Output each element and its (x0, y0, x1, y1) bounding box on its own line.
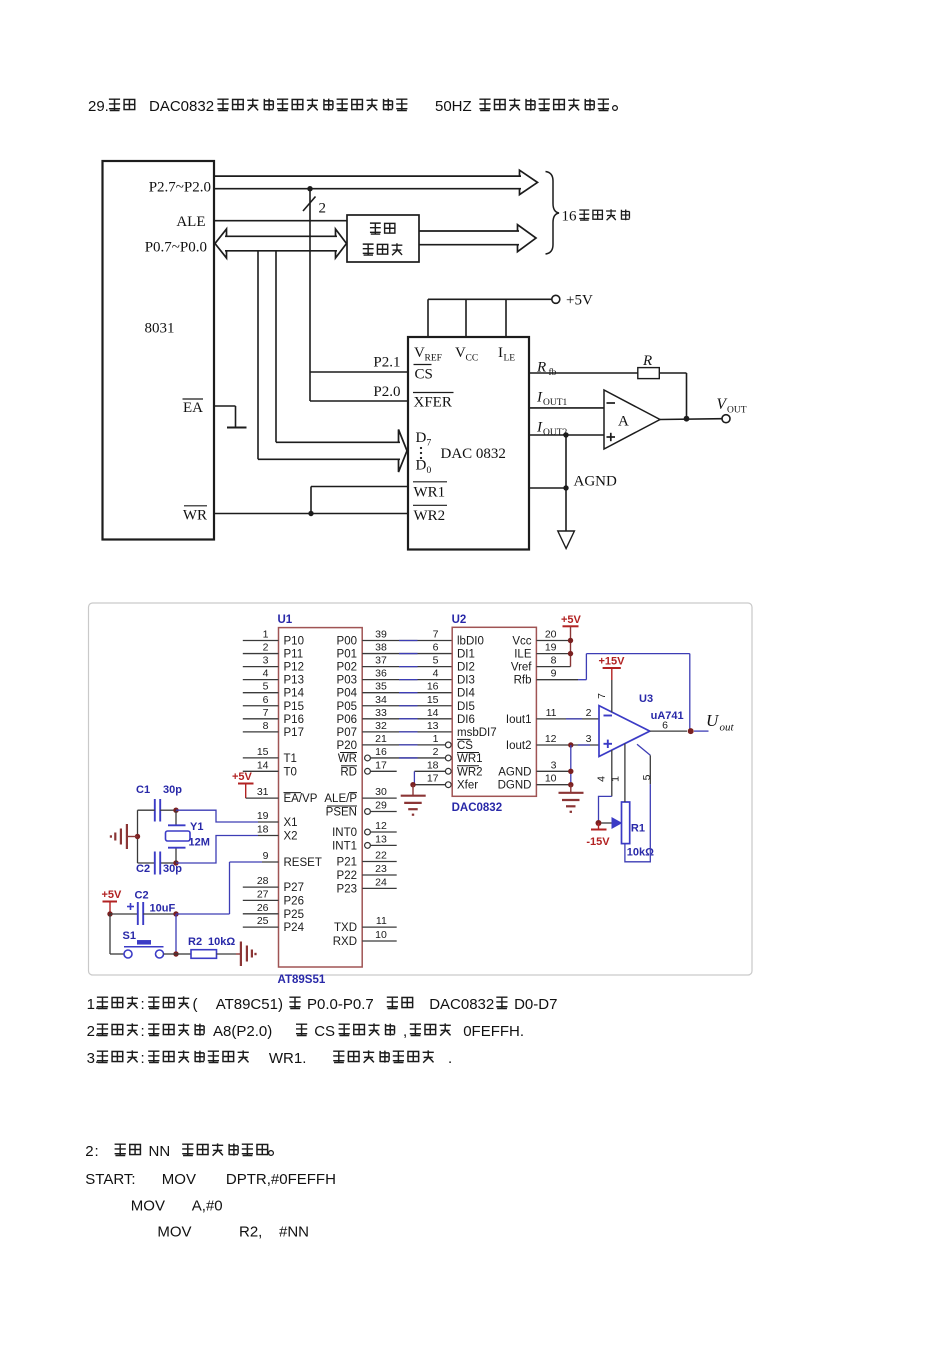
svg-text:WR1.: WR1. (269, 1050, 307, 1067)
svg-text:ALE: ALE (176, 214, 205, 230)
svg-text:RXD: RXD (333, 936, 357, 948)
svg-text:10kΩ: 10kΩ (208, 936, 235, 948)
svg-text:27: 27 (257, 888, 269, 900)
svg-text:P2.0: P2.0 (373, 384, 400, 400)
svg-text:35: 35 (375, 681, 387, 693)
svg-text:11: 11 (376, 915, 387, 927)
svg-text:V: V (414, 345, 425, 361)
svg-text:P13: P13 (284, 675, 304, 687)
svg-text:17: 17 (427, 773, 439, 785)
svg-text:P0.0-P0.7: P0.0-P0.7 (307, 996, 374, 1013)
svg-text:TXD: TXD (334, 922, 357, 934)
svg-text:24: 24 (375, 876, 387, 888)
svg-text:Y1: Y1 (190, 821, 203, 833)
svg-text:2: 2 (263, 642, 269, 654)
svg-text:D0-D7: D0-D7 (514, 996, 557, 1013)
svg-text:13: 13 (427, 720, 439, 732)
svg-text:U: U (706, 711, 720, 730)
svg-text:WR: WR (338, 753, 357, 765)
svg-text:7: 7 (596, 693, 608, 699)
svg-text:U3: U3 (639, 693, 653, 705)
svg-text:25: 25 (257, 915, 269, 927)
svg-text:+5V: +5V (561, 614, 582, 626)
svg-text:DI4: DI4 (457, 688, 476, 700)
svg-text:R2,: R2, (239, 1224, 262, 1241)
svg-text:WR: WR (183, 508, 207, 524)
svg-text:6: 6 (263, 694, 269, 706)
svg-text:out: out (720, 722, 735, 734)
svg-text:DI2: DI2 (457, 662, 475, 674)
svg-text:Iout1: Iout1 (506, 714, 532, 726)
svg-text:3.: 3. (87, 1050, 100, 1067)
svg-text:P03: P03 (337, 675, 357, 687)
svg-text:29.: 29. (88, 98, 109, 115)
svg-text:8: 8 (263, 720, 269, 732)
svg-text:P25: P25 (284, 909, 304, 921)
svg-text:36: 36 (375, 668, 387, 680)
svg-text:INT0: INT0 (332, 827, 357, 839)
svg-text:#NN: #NN (279, 1224, 309, 1241)
svg-text:15: 15 (427, 694, 439, 706)
svg-text:MOV: MOV (162, 1171, 196, 1188)
svg-text:DAC0832: DAC0832 (429, 996, 494, 1013)
svg-text:6: 6 (662, 720, 668, 732)
svg-text:20: 20 (545, 629, 557, 641)
svg-text:14: 14 (257, 759, 269, 771)
svg-text:1: 1 (610, 776, 622, 782)
svg-text:U2: U2 (452, 614, 467, 626)
svg-text:C2: C2 (135, 890, 149, 902)
svg-text:2: 2 (319, 201, 327, 217)
svg-text:T0: T0 (284, 766, 297, 778)
svg-text:CS: CS (415, 367, 433, 383)
svg-text:5: 5 (263, 681, 269, 693)
svg-text:2: 2 (85, 1143, 93, 1160)
svg-text:Rfb: Rfb (514, 675, 532, 687)
svg-text:A: A (618, 414, 629, 430)
svg-text:ILE: ILE (514, 649, 532, 661)
svg-text:AGND: AGND (498, 766, 531, 778)
svg-text:I: I (498, 345, 503, 361)
svg-text:P11: P11 (284, 649, 304, 661)
svg-text:16: 16 (562, 209, 578, 225)
svg-text:P14: P14 (284, 688, 305, 700)
svg-text:C2: C2 (136, 863, 150, 875)
svg-text:DAC0832: DAC0832 (452, 802, 503, 814)
svg-text:CS: CS (457, 740, 473, 752)
svg-text:V: V (455, 345, 466, 361)
svg-text:EA/VP: EA/VP (284, 793, 318, 805)
svg-text:50HZ: 50HZ (435, 98, 472, 115)
svg-text:15: 15 (257, 746, 269, 758)
svg-text:0: 0 (427, 466, 432, 476)
svg-text:28: 28 (257, 875, 269, 887)
svg-text:D: D (416, 430, 427, 446)
svg-text:29: 29 (375, 800, 387, 812)
svg-text:16: 16 (427, 681, 439, 693)
svg-text:7: 7 (427, 439, 432, 449)
svg-text:.: . (448, 1050, 452, 1067)
svg-text:ALE/P: ALE/P (324, 793, 357, 805)
svg-text:P10: P10 (284, 636, 304, 648)
svg-text:lbDI0: lbDI0 (457, 636, 484, 648)
svg-text:P0.7~P0.0: P0.7~P0.0 (145, 240, 207, 256)
svg-text:26: 26 (257, 902, 269, 914)
svg-text:DI3: DI3 (457, 675, 475, 687)
svg-text:P15: P15 (284, 701, 304, 713)
svg-text:P24: P24 (284, 922, 305, 934)
svg-text:P05: P05 (337, 701, 357, 713)
svg-text:I: I (536, 420, 543, 436)
svg-text:+5V: +5V (232, 771, 253, 783)
svg-text:Xfer: Xfer (457, 780, 478, 792)
svg-text:0FEFFH.: 0FEFFH. (463, 1023, 524, 1040)
svg-text:START:: START: (85, 1171, 135, 1188)
svg-text:19: 19 (545, 642, 557, 654)
svg-text:19: 19 (257, 810, 269, 822)
svg-text:21: 21 (375, 733, 387, 745)
svg-text:DI1: DI1 (457, 649, 475, 661)
svg-text:LE: LE (504, 354, 516, 364)
svg-text:38: 38 (375, 642, 387, 654)
svg-text:7: 7 (433, 629, 439, 641)
svg-text:P27: P27 (284, 882, 304, 894)
svg-text:P26: P26 (284, 895, 304, 907)
svg-text:AT89S51: AT89S51 (278, 974, 326, 986)
svg-text:10: 10 (545, 773, 557, 785)
svg-text:1: 1 (433, 733, 439, 745)
svg-text:7: 7 (263, 707, 269, 719)
svg-text:8: 8 (551, 655, 557, 667)
svg-text:A8(P2.0): A8(P2.0) (213, 1023, 272, 1040)
svg-text:14: 14 (427, 707, 439, 719)
svg-text:WR2: WR2 (457, 766, 483, 778)
svg-text:12: 12 (375, 820, 387, 832)
svg-text:P16: P16 (284, 714, 304, 726)
svg-text:RESET: RESET (284, 857, 322, 869)
svg-text:WR1: WR1 (457, 753, 483, 765)
svg-text:30p: 30p (163, 863, 182, 875)
svg-text:12M: 12M (189, 837, 210, 849)
svg-text:I: I (536, 390, 543, 406)
svg-text:A,#0: A,#0 (192, 1198, 223, 1215)
svg-text:DAC 0832: DAC 0832 (441, 446, 506, 462)
svg-text:msbDI7: msbDI7 (457, 727, 497, 739)
svg-text::: : (141, 1050, 145, 1067)
svg-text:16: 16 (375, 746, 387, 758)
svg-text:NN: NN (149, 1143, 171, 1160)
svg-text:Vref: Vref (511, 662, 532, 674)
svg-text:2: 2 (586, 707, 592, 719)
svg-text:R: R (642, 353, 652, 369)
svg-text:INT1: INT1 (332, 840, 357, 852)
svg-text:X2: X2 (284, 831, 298, 843)
svg-text:-15V: -15V (586, 836, 610, 848)
svg-text:+15V: +15V (599, 656, 626, 668)
svg-text:4: 4 (596, 776, 608, 782)
svg-text:V: V (717, 396, 728, 413)
svg-text:WR1: WR1 (414, 485, 446, 501)
svg-text:D: D (416, 458, 427, 474)
svg-text:32: 32 (375, 720, 387, 732)
svg-text:22: 22 (375, 850, 387, 862)
svg-text:8031: 8031 (145, 321, 175, 337)
svg-text:Vcc: Vcc (512, 636, 531, 648)
svg-text:R2: R2 (188, 936, 202, 948)
svg-text:10uF: 10uF (150, 903, 176, 915)
svg-text:39: 39 (375, 629, 387, 641)
svg-text:P22: P22 (337, 870, 357, 882)
svg-text:30p: 30p (163, 784, 182, 796)
svg-text:5: 5 (641, 774, 653, 780)
svg-text:Iout2: Iout2 (506, 740, 532, 752)
svg-text:OUT: OUT (727, 406, 747, 416)
svg-text:P06: P06 (337, 714, 357, 726)
svg-text:9: 9 (263, 850, 269, 862)
svg-text:MOV: MOV (157, 1224, 191, 1241)
svg-text:P23: P23 (337, 883, 357, 895)
svg-text:XFER: XFER (414, 395, 452, 411)
svg-text:P21: P21 (337, 857, 357, 869)
svg-text:1: 1 (263, 629, 269, 641)
svg-text:X1: X1 (284, 817, 298, 829)
svg-text:31: 31 (257, 786, 269, 798)
svg-text:P00: P00 (337, 636, 357, 648)
svg-text:R1: R1 (631, 823, 645, 835)
svg-text::: : (141, 1023, 145, 1040)
svg-text:3: 3 (586, 733, 592, 745)
svg-text:CS: CS (314, 1023, 335, 1040)
svg-text:P02: P02 (337, 662, 357, 674)
svg-text:DGND: DGND (498, 780, 532, 792)
svg-text:T1: T1 (284, 753, 297, 765)
svg-text:23: 23 (375, 863, 387, 875)
svg-text:P04: P04 (337, 688, 358, 700)
svg-text:P2.7~P2.0: P2.7~P2.0 (149, 180, 211, 196)
svg-text:AT89C51): AT89C51) (216, 996, 283, 1013)
svg-text::: : (95, 1143, 99, 1160)
svg-text:DI6: DI6 (457, 714, 475, 726)
svg-text:1.: 1. (87, 996, 100, 1013)
svg-text:P12: P12 (284, 662, 304, 674)
svg-text:3: 3 (551, 759, 557, 771)
svg-text:DPTR,#0FEFFH: DPTR,#0FEFFH (226, 1171, 336, 1188)
svg-text:12: 12 (545, 733, 557, 745)
svg-text:P2.1: P2.1 (373, 355, 400, 371)
svg-text:C1: C1 (136, 784, 150, 796)
svg-text:13: 13 (375, 833, 387, 845)
svg-text:P01: P01 (337, 649, 357, 661)
svg-text:DI5: DI5 (457, 701, 475, 713)
svg-text:9: 9 (551, 668, 557, 680)
svg-text:RD: RD (340, 766, 357, 778)
svg-text::: : (141, 996, 145, 1013)
svg-text:17: 17 (375, 759, 387, 771)
svg-text:S1: S1 (123, 930, 136, 942)
svg-text:30: 30 (375, 786, 387, 798)
svg-text:4: 4 (263, 668, 269, 680)
svg-text:34: 34 (375, 694, 387, 706)
svg-text:P20: P20 (337, 740, 357, 752)
svg-text:EA: EA (183, 400, 203, 416)
svg-text:5: 5 (433, 655, 439, 667)
svg-text:,: , (403, 1023, 407, 1040)
svg-text:37: 37 (375, 655, 387, 667)
svg-text:+5V: +5V (566, 293, 593, 309)
svg-text:2: 2 (433, 746, 439, 758)
svg-text:CC: CC (466, 354, 479, 364)
svg-text:+5V: +5V (102, 889, 123, 901)
svg-text:AGND: AGND (574, 474, 617, 490)
svg-text:WR2: WR2 (414, 508, 446, 524)
svg-text:U1: U1 (278, 614, 293, 626)
svg-text:REF: REF (425, 354, 442, 364)
svg-text:6: 6 (433, 642, 439, 654)
svg-text:OUT1: OUT1 (543, 398, 568, 408)
svg-text:2.: 2. (87, 1023, 100, 1040)
svg-text:33: 33 (375, 707, 387, 719)
svg-text:P07: P07 (337, 727, 357, 739)
svg-text:PSEN: PSEN (326, 807, 357, 819)
svg-text:MOV: MOV (131, 1198, 165, 1215)
svg-text:10: 10 (375, 929, 387, 941)
svg-text:11: 11 (546, 707, 557, 719)
svg-text:P17: P17 (284, 727, 304, 739)
svg-text:4: 4 (433, 668, 439, 680)
svg-text:3: 3 (263, 655, 269, 667)
svg-text:(: ( (193, 996, 198, 1013)
svg-text:18: 18 (257, 824, 269, 836)
svg-text:DAC0832: DAC0832 (149, 98, 214, 115)
svg-text:18: 18 (427, 759, 439, 771)
